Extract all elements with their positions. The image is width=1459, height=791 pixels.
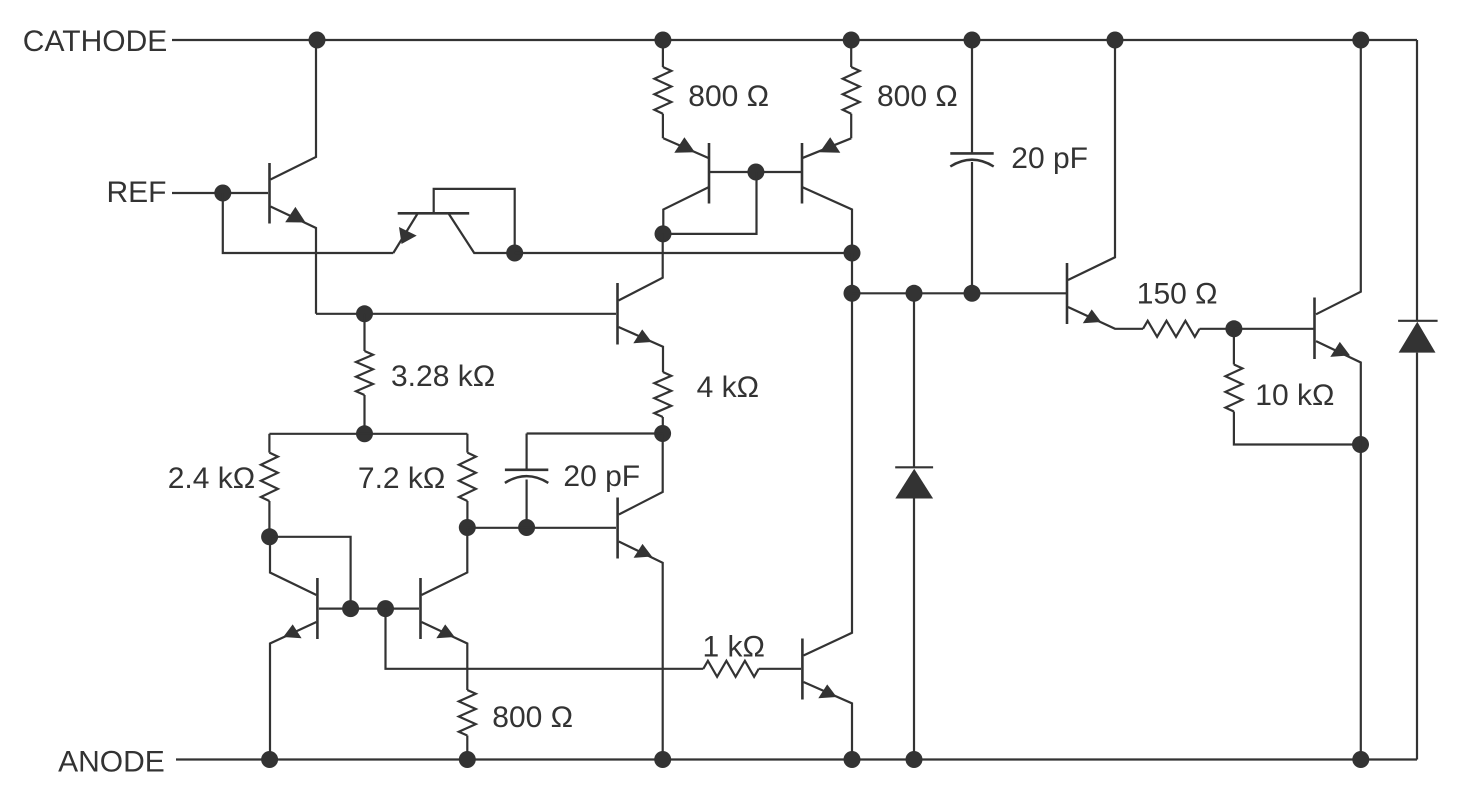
svg-text:800 Ω: 800 Ω bbox=[688, 80, 769, 113]
wire Q6 base bbox=[467, 527, 616, 529]
node cathode-T1 bbox=[1107, 32, 1124, 49]
wire right edge upper bbox=[1416, 40, 1418, 321]
node cathode-800R bbox=[843, 32, 860, 49]
resistor 2.4 kOhm bbox=[261, 434, 278, 537]
wire right edge lower bbox=[1416, 353, 1418, 760]
node anode-Q7 bbox=[261, 751, 278, 768]
resistor 3.28 kOhm bbox=[356, 314, 373, 434]
node mirror right collector bbox=[844, 245, 861, 262]
node 2.4k bottom bbox=[261, 528, 278, 545]
svg-text:20 pF: 20 pF bbox=[1011, 142, 1088, 175]
CATHODE terminal label bbox=[23, 25, 167, 58]
transistor Q8 (right pair NPN) bbox=[421, 528, 468, 691]
wire REF lead bbox=[172, 192, 223, 194]
node mirror left collector bbox=[655, 225, 672, 242]
wire CATHODE rail bbox=[172, 39, 1417, 41]
resistor 150 Ohm bbox=[1143, 321, 1200, 337]
wire 1k to Q9 base bbox=[759, 668, 801, 670]
wire mid rail bbox=[515, 252, 852, 254]
node anode-Q9 bbox=[844, 751, 861, 768]
label 4 kOhm bbox=[697, 371, 759, 404]
node cathode-cap bbox=[964, 32, 981, 49]
transistor Q9 (driver NPN) bbox=[802, 253, 852, 760]
label 2.4 kOhm bbox=[168, 462, 255, 495]
node cathode-Q1 bbox=[309, 32, 326, 49]
resistor 800 Ohm (right) bbox=[843, 40, 860, 138]
svg-text:3.28 kΩ: 3.28 kΩ bbox=[391, 360, 495, 393]
transistor Q1 (REF input NPN) bbox=[223, 40, 316, 314]
diode D2 bbox=[1398, 321, 1438, 353]
node 10k bottom bbox=[1352, 436, 1369, 453]
node cathode-800L bbox=[654, 32, 671, 49]
svg-text:REF: REF bbox=[107, 176, 167, 209]
wire Q9 collector to output base bbox=[852, 292, 1066, 294]
node REF bbox=[214, 185, 231, 202]
svg-text:ANODE: ANODE bbox=[58, 746, 165, 779]
label 800 Ohm bottom bbox=[492, 701, 573, 734]
wire T2 base bbox=[1234, 328, 1314, 330]
wire 150 to node bbox=[1200, 328, 1234, 330]
svg-text:20 pF: 20 pF bbox=[563, 460, 640, 493]
capacitor 20 pF (lower) bbox=[505, 434, 548, 528]
svg-text:10 kΩ: 10 kΩ bbox=[1255, 379, 1334, 412]
node cap lower bottom bbox=[518, 519, 535, 536]
wire base node to 1k bbox=[386, 609, 704, 669]
transistor Q4 (mirror PNP right) bbox=[802, 137, 852, 253]
ANODE terminal label bbox=[58, 746, 165, 779]
node pair base right bbox=[377, 600, 394, 617]
node anode-T2 bbox=[1352, 751, 1369, 768]
node anode-D1 bbox=[906, 751, 923, 768]
transistor Q6 (second stage NPN) bbox=[618, 434, 663, 760]
node divider top bbox=[356, 305, 373, 322]
wire divider mid rail bbox=[269, 433, 467, 435]
wire 4k node to cap bbox=[527, 432, 663, 434]
node cap top bottom bbox=[964, 285, 981, 302]
label 800 Ohm right bbox=[877, 80, 958, 113]
transistor Q5 (gain stage NPN) bbox=[316, 234, 663, 372]
node cathode-T2 bbox=[1352, 32, 1369, 49]
resistor 10 kOhm bbox=[1225, 329, 1360, 445]
svg-text:800 Ω: 800 Ω bbox=[492, 701, 573, 734]
svg-text:2.4 kΩ: 2.4 kΩ bbox=[168, 462, 255, 495]
node divider mid bbox=[356, 425, 373, 442]
svg-text:7.2 kΩ: 7.2 kΩ bbox=[358, 462, 445, 495]
svg-text:1 kΩ: 1 kΩ bbox=[703, 631, 765, 664]
label 10 kOhm bbox=[1255, 379, 1334, 412]
transistor T2 (output NPN) bbox=[1315, 40, 1361, 760]
transistor Q7 (left pair NPN) bbox=[270, 537, 317, 760]
resistor 800 Ohm (left) bbox=[654, 40, 671, 138]
resistor 7.2 kOhm bbox=[459, 434, 476, 528]
node D1 top bbox=[906, 285, 923, 302]
node 7.2k bottom bbox=[459, 519, 476, 536]
resistor 800 Ohm (bottom) bbox=[459, 690, 476, 760]
transistor T1 (output driver) bbox=[1067, 40, 1143, 329]
REF terminal label bbox=[107, 176, 167, 209]
svg-text:CATHODE: CATHODE bbox=[23, 25, 167, 58]
label 20 pF top bbox=[1011, 142, 1088, 175]
label 3.28 kOhm bbox=[391, 360, 495, 393]
label 150 Ohm bbox=[1137, 278, 1218, 311]
wire REF node down and right bbox=[223, 193, 393, 253]
wire mirror base tie bbox=[663, 172, 757, 234]
label 7.2 kOhm bbox=[358, 462, 445, 495]
svg-text:150 Ω: 150 Ω bbox=[1137, 278, 1218, 311]
resistor 1 kOhm bbox=[703, 661, 758, 677]
node pair base left bbox=[342, 600, 359, 617]
wire mirror bases bbox=[709, 171, 802, 173]
node T2 base bbox=[1225, 320, 1242, 337]
node 4k bottom bbox=[654, 425, 671, 442]
label 1 kOhm bbox=[703, 631, 765, 664]
transistor Q3 (mirror PNP left) bbox=[663, 137, 709, 234]
label 800 Ohm left bbox=[688, 80, 769, 113]
label 20 pF lower bbox=[563, 460, 640, 493]
node anode-800B bbox=[459, 751, 476, 768]
wire 2.4k bottom to bases bbox=[270, 537, 351, 609]
svg-text:800 Ω: 800 Ω bbox=[877, 80, 958, 113]
node anode-Q6 bbox=[654, 751, 671, 768]
transistor Q2 (diode-connected lateral PNP) bbox=[393, 189, 514, 253]
resistor 4 kOhm bbox=[654, 372, 671, 434]
wire pair bases bbox=[319, 607, 419, 609]
wire ANODE rail bbox=[176, 758, 1417, 760]
node Q2 collector-base bbox=[506, 245, 523, 262]
svg-text:4 kΩ: 4 kΩ bbox=[697, 371, 759, 404]
diode D1 bbox=[895, 293, 933, 759]
node mirror base bbox=[747, 164, 764, 181]
node Q9 collector bbox=[844, 285, 861, 302]
capacitor 20 pF (top) bbox=[950, 40, 993, 293]
